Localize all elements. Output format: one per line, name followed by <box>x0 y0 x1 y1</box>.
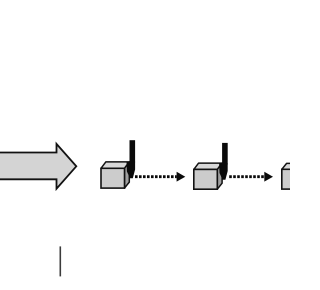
node 2 cube side face <box>217 163 222 189</box>
node 3 cube top face <box>282 163 310 169</box>
node 2 cube top face <box>194 163 222 169</box>
node 1 cube front face <box>101 168 125 188</box>
node 1 antenna bar <box>130 140 136 162</box>
node 2 cube front face <box>194 169 218 189</box>
dotted arrow 1 head <box>177 172 186 182</box>
dotted arrow 2 head <box>264 172 273 182</box>
dotted arrow 1 (node1 -> node2) <box>135 172 185 182</box>
dotted arrow 2 dashed line <box>229 175 264 178</box>
node 2: wireless cube <box>194 143 228 189</box>
node 2 antenna base (black blob) <box>219 163 228 180</box>
node 3 cube front face <box>282 169 306 189</box>
node 1: wireless cube <box>101 140 135 188</box>
node 3: partial cube at right edge <box>282 163 310 189</box>
node 1 cube top face <box>101 162 129 168</box>
dotted arrow 1 dashed line <box>135 175 177 178</box>
block arrow (large gray arrow, left) <box>0 144 76 189</box>
node 2 antenna bar <box>222 143 228 165</box>
small vertical line (bottom left) <box>59 246 61 276</box>
dotted arrow 2 (node2 -> node3) <box>229 172 273 182</box>
node 1 cube side face <box>125 162 130 188</box>
node 1 antenna base (black blob) <box>127 162 136 179</box>
